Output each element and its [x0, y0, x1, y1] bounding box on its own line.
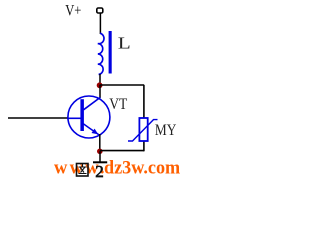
node junction dot top	[97, 82, 103, 88]
inductor core bar	[109, 31, 112, 74]
wire node to varistor (horizontal)	[100, 84, 145, 86]
svg-text:MY: MY	[155, 120, 177, 139]
svg-text:VT: VT	[109, 96, 127, 113]
wire coil bottom to node	[99, 74, 101, 85]
varistor MY body	[139, 118, 147, 141]
varistor diagonal stroke	[128, 120, 158, 141]
transistor VT circle	[68, 96, 110, 138]
wire varistor bottom	[143, 141, 145, 151]
emitter arrowhead	[92, 129, 99, 135]
svg-text:V+: V+	[65, 2, 81, 19]
wire varistor top (vertical)	[143, 85, 145, 118]
caption 图2	[77, 162, 104, 181]
wire emitter to bottom node	[99, 134, 101, 152]
wire terminal to inductor	[99, 13, 101, 34]
svg-text:dz3w.com: dz3w.com	[104, 158, 181, 178]
terminal circle V+	[97, 8, 103, 13]
ground	[93, 151, 107, 162]
wire node to collector	[99, 85, 101, 98]
svg-text:2: 2	[95, 162, 104, 179]
transistor base bar	[80, 99, 84, 131]
collector line	[84, 97, 101, 109]
base wire inside circle (blue)	[67, 117, 81, 119]
emitter line with arrow	[83, 124, 100, 136]
node junction dot bottom	[97, 149, 103, 155]
inductor L coil	[98, 33, 104, 74]
base wire (black)	[8, 117, 68, 119]
svg-text:L: L	[118, 34, 131, 53]
bottom wire to varistor	[100, 150, 144, 152]
